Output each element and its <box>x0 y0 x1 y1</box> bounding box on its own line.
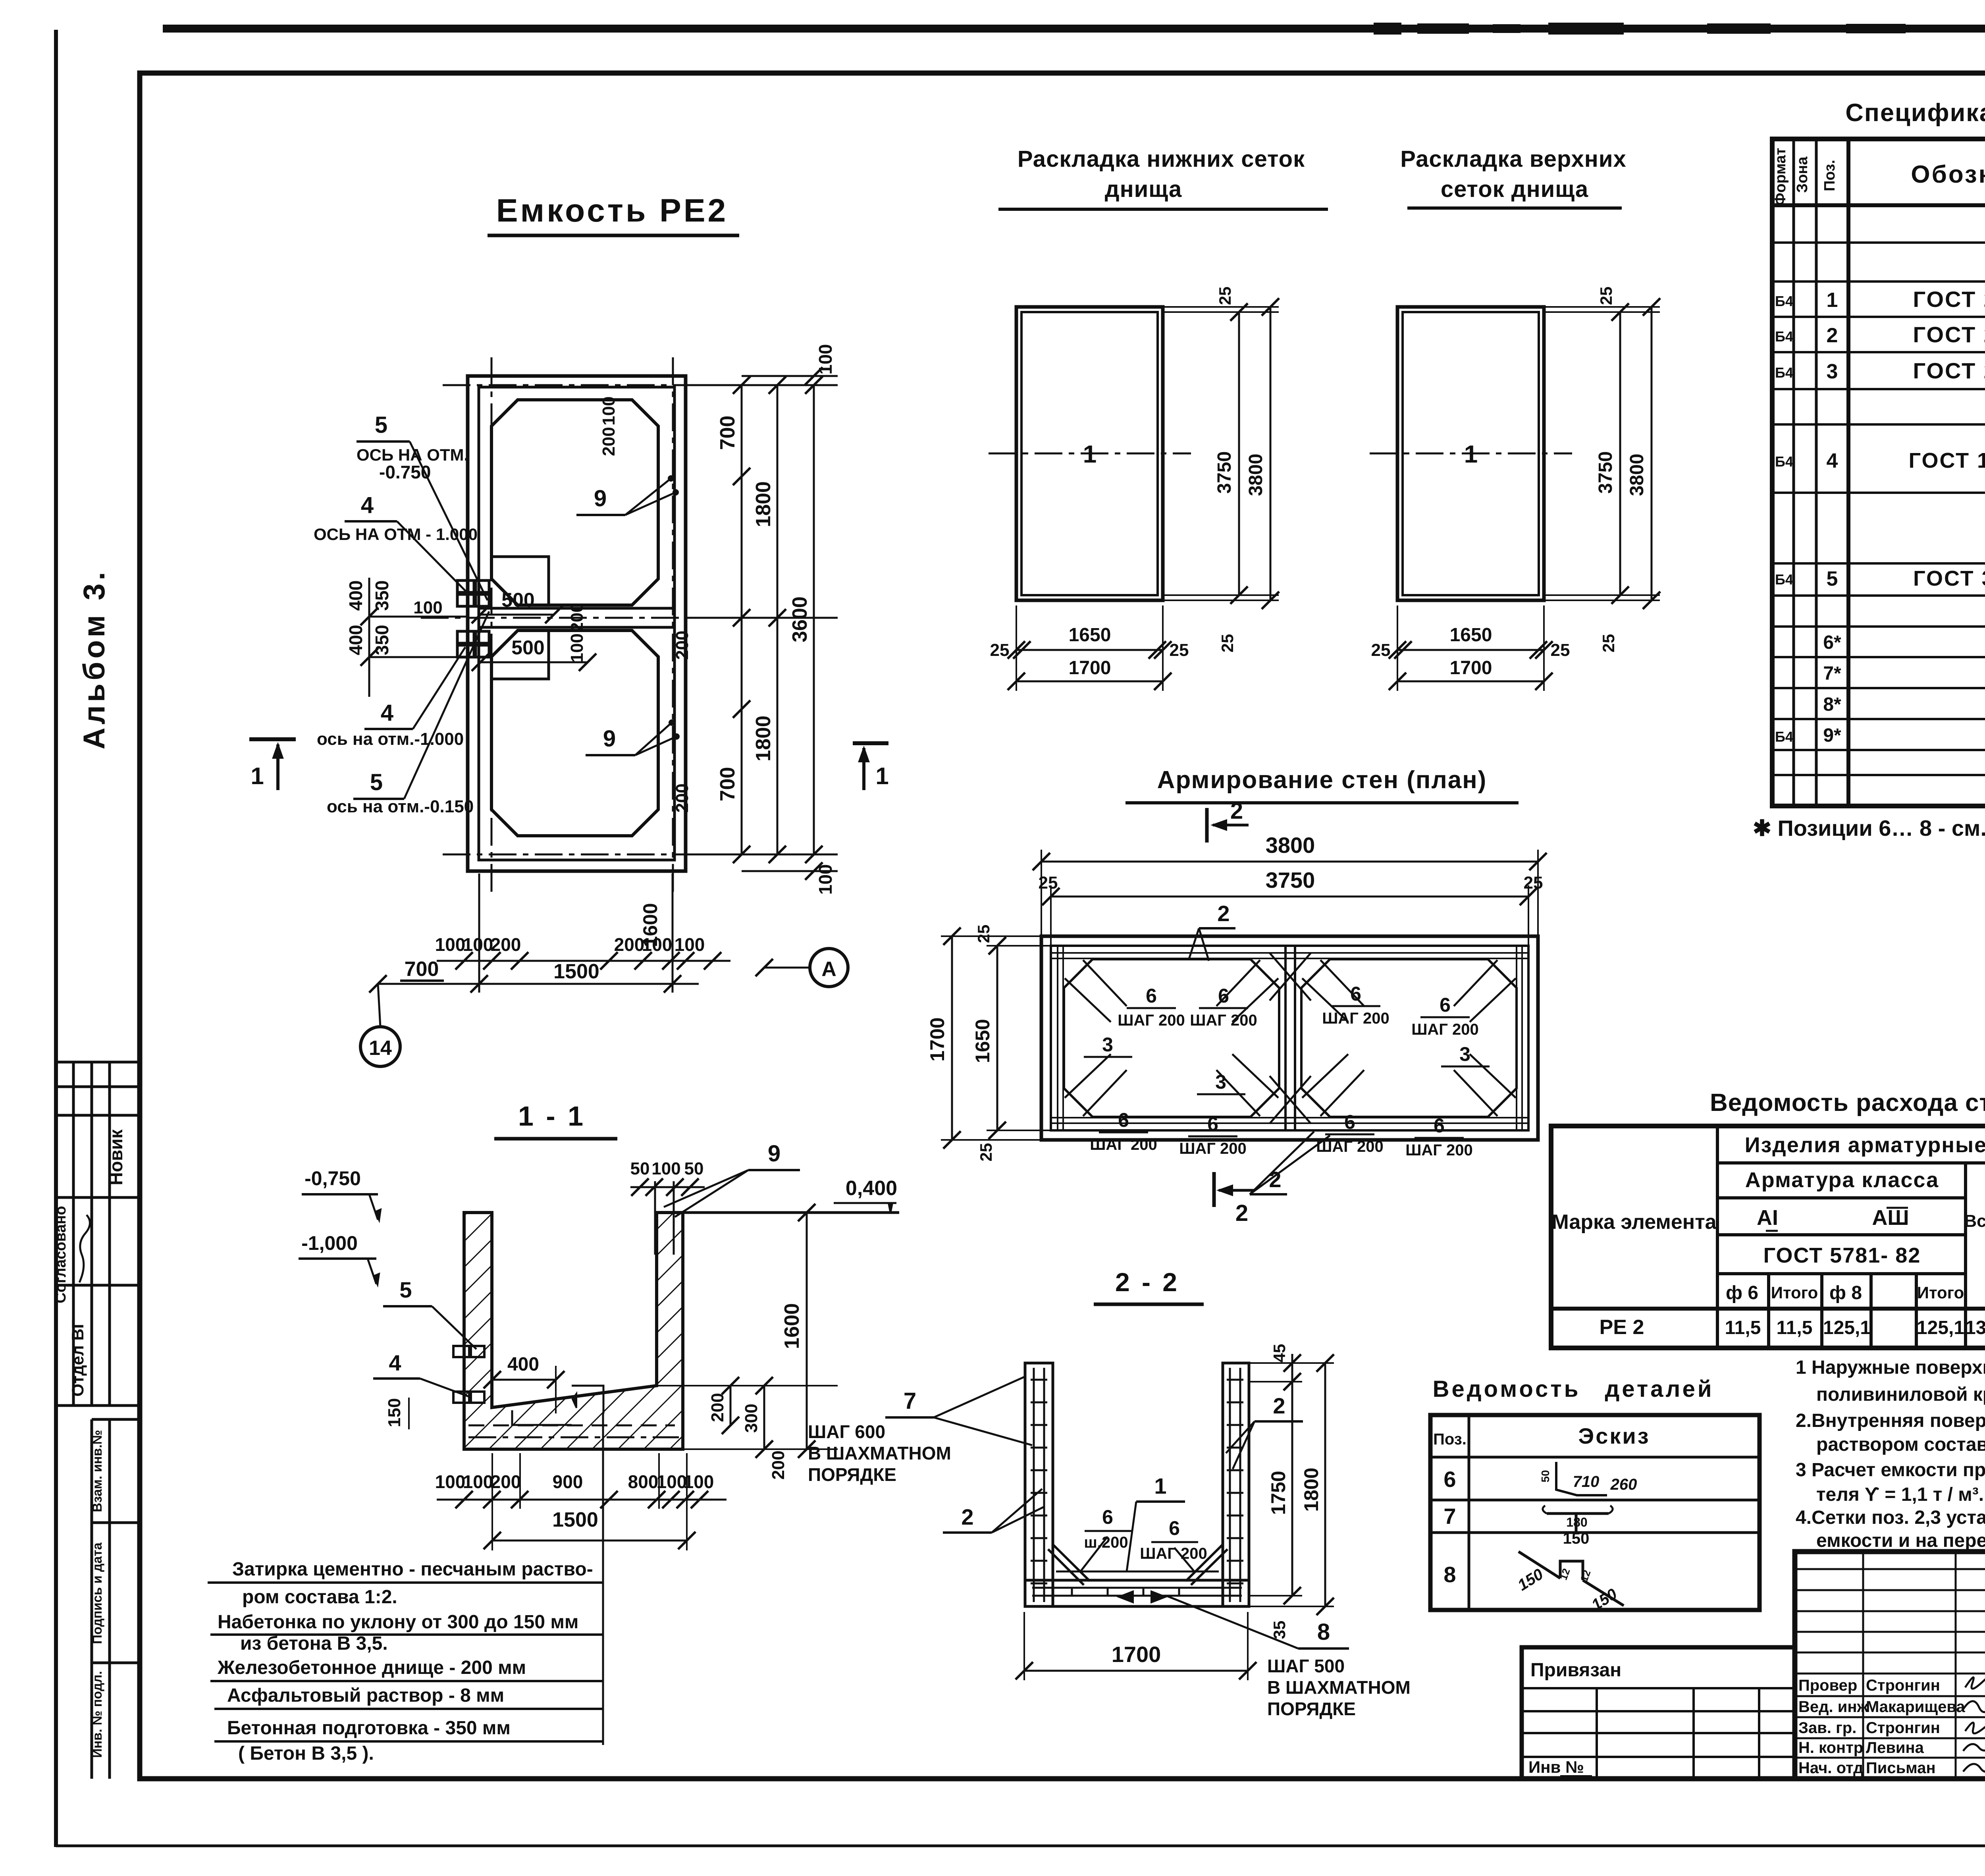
svg-text:125,1: 125,1 <box>1917 1317 1964 1338</box>
svg-text:9: 9 <box>768 1141 781 1166</box>
svg-text:Обозначение: Обозначение <box>1911 161 1985 188</box>
svg-text:1600: 1600 <box>781 1303 804 1349</box>
svg-text:1500: 1500 <box>552 1508 598 1531</box>
svg-text:Раскладка нижних сеток: Раскладка нижних сеток <box>1018 146 1305 172</box>
svg-text:ось на отм.-0.150: ось на отм.-0.150 <box>327 797 474 816</box>
svg-text:400: 400 <box>345 625 366 656</box>
svg-text:Ведомость расхода стали на: Ведомость расхода стали на элемент, кг <box>1710 1089 1985 1116</box>
svg-text:ф 6: ф 6 <box>1726 1282 1758 1303</box>
svg-text:ГОСТ 23279-85: ГОСТ 23279-85 <box>1913 287 1985 312</box>
svg-text:1 Наружные поверхности емкос: 1 Наружные поверхности емкости , выше от… <box>1796 1357 1985 1378</box>
svg-text:ШАГ 200: ШАГ 200 <box>1179 1140 1247 1157</box>
svg-text:100: 100 <box>435 934 466 955</box>
svg-text:ШАГ 200: ШАГ 200 <box>1316 1138 1384 1155</box>
svg-text:3600: 3600 <box>788 596 811 642</box>
svg-text:7: 7 <box>1443 1504 1456 1529</box>
svg-text:5: 5 <box>370 769 383 795</box>
svg-text:Всего: Всего <box>1964 1211 1985 1231</box>
svg-text:200: 200 <box>708 1393 727 1422</box>
svg-text:11,5: 11,5 <box>1777 1317 1813 1338</box>
svg-text:200: 200 <box>673 783 692 812</box>
svg-text:2: 2 <box>1217 901 1230 926</box>
svg-text:1650: 1650 <box>1450 625 1492 646</box>
svg-text:Армирование стен (план): Армирование стен (план) <box>1157 766 1487 794</box>
svg-text:6: 6 <box>1207 1113 1218 1135</box>
svg-text:25: 25 <box>1524 873 1543 893</box>
svg-text:ром состава 1:2.: ром состава 1:2. <box>242 1587 397 1608</box>
svg-text:Взам. инв.№: Взам. инв.№ <box>90 1430 104 1512</box>
svg-text:ГОСТ 23279-85: ГОСТ 23279-85 <box>1913 358 1985 383</box>
svg-text:1800: 1800 <box>752 481 775 527</box>
svg-text:Письман: Письман <box>1866 1759 1936 1777</box>
svg-text:5: 5 <box>375 412 387 438</box>
svg-text:100: 100 <box>413 598 442 617</box>
svg-text:2: 2 <box>1230 798 1243 824</box>
svg-text:300: 300 <box>742 1404 761 1433</box>
svg-text:25: 25 <box>977 1143 995 1162</box>
svg-text:3: 3 <box>1459 1043 1470 1065</box>
svg-text:45: 45 <box>1270 1344 1289 1363</box>
svg-text:Провер: Провер <box>1798 1677 1857 1694</box>
svg-text:ГОСТ 10704-76: ГОСТ 10704-76 <box>1909 449 1985 472</box>
svg-text:Н. контр: Н. контр <box>1798 1739 1863 1756</box>
svg-text:6*: 6* <box>1823 632 1841 653</box>
svg-text:Поз.: Поз. <box>1433 1431 1467 1448</box>
svg-text:1500: 1500 <box>553 960 599 983</box>
svg-text:25: 25 <box>1597 287 1615 305</box>
svg-text:6: 6 <box>1102 1506 1113 1528</box>
svg-text:8*: 8* <box>1823 694 1841 715</box>
svg-text:350: 350 <box>372 580 392 611</box>
svg-text:710: 710 <box>1573 1473 1600 1490</box>
svg-text:Бетонная подготовка - 3: Бетонная подготовка - 350 мм <box>227 1718 511 1739</box>
svg-text:50: 50 <box>684 1159 704 1178</box>
svg-text:200: 200 <box>769 1450 788 1479</box>
svg-text:2: 2 <box>1273 1393 1285 1418</box>
svg-text:РЕ 2: РЕ 2 <box>1600 1316 1644 1339</box>
svg-text:500: 500 <box>511 636 544 659</box>
svg-text:3750: 3750 <box>1595 451 1616 494</box>
svg-text:1650: 1650 <box>971 1019 994 1063</box>
svg-text:1700: 1700 <box>1112 1642 1161 1667</box>
svg-text:ШАГ 600: ШАГ 600 <box>808 1421 885 1442</box>
svg-text:Отдел ВГ: Отдел ВГ <box>68 1319 87 1396</box>
svg-text:25: 25 <box>974 925 993 943</box>
svg-text:ШАГ 200: ШАГ 200 <box>1190 1012 1257 1029</box>
svg-text:700: 700 <box>716 416 739 450</box>
svg-text:1: 1 <box>1827 289 1838 312</box>
svg-text:8: 8 <box>1443 1562 1456 1587</box>
svg-text:2 - 2: 2 - 2 <box>1115 1267 1179 1297</box>
svg-text:3: 3 <box>1215 1071 1226 1093</box>
svg-text:150: 150 <box>385 1398 404 1427</box>
svg-text:25: 25 <box>1551 640 1570 660</box>
svg-text:100: 100 <box>815 344 836 375</box>
svg-text:-0.750: -0.750 <box>379 462 431 482</box>
svg-text:100: 100 <box>684 1471 714 1492</box>
svg-text:Инв. № подл.: Инв. № подл. <box>90 1671 104 1758</box>
svg-text:Б4: Б4 <box>1775 364 1793 381</box>
svg-text:1700: 1700 <box>1069 657 1111 679</box>
svg-text:200: 200 <box>491 934 521 955</box>
svg-text:Спецификация к монолитной е: Спецификация к монолитной емкости РЕ2 <box>1845 99 1985 127</box>
svg-text:3: 3 <box>1102 1033 1113 1056</box>
svg-text:900: 900 <box>553 1471 583 1492</box>
svg-text:1750: 1750 <box>1267 1471 1289 1515</box>
svg-text:ось на отм.-1.000: ось на отм.-1.000 <box>317 729 464 749</box>
svg-text:2: 2 <box>1235 1200 1248 1226</box>
svg-text:260: 260 <box>1610 1476 1637 1493</box>
svg-text:50: 50 <box>1539 1470 1551 1482</box>
svg-text:100: 100 <box>567 633 587 662</box>
svg-text:Ведомость: Ведомость <box>1433 1376 1581 1402</box>
svg-text:ШАГ 200: ШАГ 200 <box>1140 1545 1207 1562</box>
svg-text:500: 500 <box>501 589 534 611</box>
svg-text:Стронгин: Стронгин <box>1866 1677 1940 1694</box>
svg-text:25: 25 <box>1218 634 1237 653</box>
svg-text:350: 350 <box>372 625 392 656</box>
svg-text:35: 35 <box>1270 1621 1289 1639</box>
svg-text:3750: 3750 <box>1266 868 1315 893</box>
svg-text:ШАГ 200: ШАГ 200 <box>1405 1141 1473 1159</box>
svg-text:200: 200 <box>599 427 619 456</box>
svg-text:700: 700 <box>405 958 439 981</box>
svg-text:ф 8: ф 8 <box>1829 1282 1862 1303</box>
svg-text:( Бетон В 3,5 ).: ( Бетон В 3,5 ). <box>238 1743 374 1764</box>
svg-text:Итого: Итого <box>1771 1283 1818 1302</box>
svg-text:Эскиз: Эскиз <box>1578 1423 1650 1448</box>
svg-text:ш.200: ш.200 <box>1084 1534 1128 1551</box>
svg-text:А: А <box>821 958 836 981</box>
svg-text:1: 1 <box>875 763 888 789</box>
svg-text:1650: 1650 <box>1069 625 1111 646</box>
svg-text:25: 25 <box>1371 640 1391 660</box>
svg-text:Согласовано: Согласовано <box>52 1206 69 1303</box>
svg-text:1600: 1600 <box>639 903 661 947</box>
svg-text:6: 6 <box>1344 1111 1355 1133</box>
svg-text:100: 100 <box>657 1471 687 1492</box>
svg-text:Затирка цементно - песчаным: Затирка цементно - песчаным раство- <box>232 1559 593 1580</box>
svg-text:-0,750: -0,750 <box>304 1167 361 1190</box>
svg-text:25: 25 <box>1216 287 1234 305</box>
svg-text:100: 100 <box>463 1471 493 1492</box>
svg-text:150: 150 <box>1563 1530 1590 1547</box>
svg-text:5: 5 <box>399 1277 412 1302</box>
svg-text:ГОСТ 5781- 82: ГОСТ 5781- 82 <box>1763 1244 1921 1267</box>
svg-text:Макарищева: Макарищева <box>1866 1698 1965 1716</box>
svg-text:раствором состава 1:2 за: раствором состава 1:2 за 2 раза на толщи… <box>1816 1434 1985 1455</box>
svg-text:100: 100 <box>815 864 836 895</box>
svg-text:АІ: АІ <box>1757 1206 1778 1230</box>
svg-text:6: 6 <box>1440 994 1451 1016</box>
svg-text:ШАГ 200: ШАГ 200 <box>1411 1021 1479 1038</box>
svg-text:АШ: АШ <box>1872 1206 1909 1230</box>
svg-text:2.Внутренняя поверхность сте: 2.Внутренняя поверхность стен торкретиру… <box>1796 1410 1985 1431</box>
svg-text:25: 25 <box>990 640 1010 660</box>
svg-text:Б4: Б4 <box>1775 729 1793 745</box>
svg-text:1700: 1700 <box>1450 657 1492 679</box>
svg-text:1700: 1700 <box>926 1017 948 1061</box>
svg-text:11,5: 11,5 <box>1725 1317 1761 1338</box>
svg-text:Инв №: Инв № <box>1528 1758 1584 1776</box>
svg-text:25: 25 <box>1170 640 1189 660</box>
svg-text:8: 8 <box>1317 1619 1330 1645</box>
svg-text:100: 100 <box>435 1471 466 1492</box>
svg-text:4.Сетки поз. 2,3 устанавлива: 4.Сетки поз. 2,3 устанавливать свободным… <box>1796 1507 1985 1528</box>
svg-text:Альбом 3.: Альбом 3. <box>77 569 111 750</box>
svg-text:Привязан: Привязан <box>1530 1660 1621 1681</box>
svg-text:1800: 1800 <box>752 715 775 762</box>
svg-text:Формат: Формат <box>1772 148 1789 206</box>
svg-text:Левина: Левина <box>1866 1739 1924 1756</box>
svg-text:200: 200 <box>567 603 587 632</box>
svg-text:4: 4 <box>361 492 374 518</box>
svg-text:3800: 3800 <box>1266 833 1315 858</box>
svg-text:Зона: Зона <box>1794 156 1811 193</box>
svg-text:Изделия арматурные: Изделия арматурные <box>1745 1133 1985 1157</box>
svg-text:Вед. инж: Вед. инж <box>1798 1698 1869 1716</box>
svg-text:3800: 3800 <box>1245 454 1266 496</box>
svg-text:ГОСТ 3262-75: ГОСТ 3262-75 <box>1913 567 1985 590</box>
svg-text:100: 100 <box>599 396 619 425</box>
svg-text:6: 6 <box>1434 1114 1445 1137</box>
svg-text:1: 1 <box>251 763 264 789</box>
svg-text:Железобетонное днище - 200: Железобетонное днище - 200 мм <box>217 1657 526 1678</box>
svg-text:125,1: 125,1 <box>1823 1317 1871 1338</box>
svg-text:14: 14 <box>369 1037 392 1060</box>
svg-text:1 - 1: 1 - 1 <box>518 1101 586 1132</box>
svg-text:3 Расчет емкости произведе: 3 Расчет емкости произведен при объемном… <box>1796 1460 1985 1481</box>
svg-text:25: 25 <box>1599 634 1618 653</box>
svg-text:1: 1 <box>1154 1473 1166 1498</box>
svg-text:теля ϒ = 1,1 т / м³.: теля ϒ = 1,1 т / м³. <box>1816 1484 1984 1505</box>
svg-text:200: 200 <box>491 1471 521 1492</box>
svg-text:7*: 7* <box>1823 663 1841 684</box>
svg-text:Подпись и дата: Подпись и дата <box>90 1542 104 1644</box>
svg-text:9: 9 <box>594 486 607 511</box>
svg-text:В ШАХМАТНОМ: В ШАХМАТНОМ <box>1267 1677 1411 1698</box>
svg-text:Асфальтовый раствор - 8 м: Асфальтовый раствор - 8 мм <box>227 1685 504 1706</box>
svg-text:3: 3 <box>1827 360 1838 383</box>
svg-text:1800: 1800 <box>1300 1467 1322 1512</box>
svg-text:800: 800 <box>628 1471 659 1492</box>
svg-text:сеток днища: сеток днища <box>1441 176 1588 202</box>
svg-text:4: 4 <box>1827 449 1838 472</box>
svg-text:6: 6 <box>1146 985 1157 1007</box>
svg-text:Арматура класса: Арматура класса <box>1745 1168 1939 1192</box>
svg-text:6: 6 <box>1443 1467 1456 1492</box>
svg-text:3800: 3800 <box>1627 454 1648 496</box>
svg-text:ПОРЯДКЕ: ПОРЯДКЕ <box>808 1464 896 1485</box>
svg-text:100: 100 <box>463 934 493 955</box>
svg-text:3750: 3750 <box>1214 451 1235 494</box>
svg-text:180: 180 <box>1566 1515 1587 1529</box>
svg-text:Зав. гр.: Зав. гр. <box>1798 1719 1856 1737</box>
svg-text:Раскладка верхних: Раскладка верхних <box>1400 146 1627 172</box>
svg-text:2: 2 <box>961 1504 973 1529</box>
svg-text:400: 400 <box>507 1354 539 1375</box>
svg-text:6: 6 <box>1350 983 1361 1005</box>
svg-text:0,400: 0,400 <box>846 1177 897 1200</box>
svg-text:9: 9 <box>603 726 616 752</box>
svg-text:6: 6 <box>1218 985 1229 1007</box>
svg-text:-1,000: -1,000 <box>301 1232 358 1254</box>
svg-text:емкости и на пересечении: емкости и на пересечении стен ( поз. 3). <box>1816 1530 1985 1551</box>
svg-text:✱ Позиции 6… 8 - см. ведом: ✱ Позиции 6… 8 - см. ведомость деталей н… <box>1753 816 1985 841</box>
svg-text:7: 7 <box>904 1388 916 1414</box>
svg-text:100: 100 <box>675 934 705 955</box>
svg-text:Б4: Б4 <box>1775 453 1793 470</box>
svg-text:4: 4 <box>389 1350 401 1375</box>
svg-text:6: 6 <box>1118 1109 1129 1131</box>
svg-text:ШАГ 200: ШАГ 200 <box>1322 1010 1389 1027</box>
svg-text:Емкость РЕ2: Емкость РЕ2 <box>496 193 728 229</box>
svg-text:Новик: Новик <box>106 1129 126 1186</box>
svg-text:9*: 9* <box>1823 725 1841 746</box>
svg-text:4: 4 <box>381 700 393 726</box>
svg-text:700: 700 <box>716 767 739 802</box>
svg-text:ОСЬ НА ОТМ - 1.000: ОСЬ НА ОТМ - 1.000 <box>314 525 478 544</box>
svg-text:днища: днища <box>1105 176 1182 202</box>
svg-text:В ШАХМАТНОМ: В ШАХМАТНОМ <box>808 1443 951 1463</box>
svg-text:ПОРЯДКЕ: ПОРЯДКЕ <box>1267 1699 1356 1719</box>
svg-text:Б4: Б4 <box>1775 571 1793 588</box>
svg-text:100: 100 <box>651 1159 680 1178</box>
svg-text:Б4: Б4 <box>1775 328 1793 345</box>
svg-text:ШАГ 500: ШАГ 500 <box>1267 1656 1345 1676</box>
svg-text:ОСЬ НА ОТМ.: ОСЬ НА ОТМ. <box>357 445 468 464</box>
svg-text:400: 400 <box>345 580 366 611</box>
svg-text:Стронгин: Стронгин <box>1866 1719 1940 1737</box>
svg-text:5: 5 <box>1827 567 1838 590</box>
svg-text:Нач. отд: Нач. отд <box>1798 1759 1863 1777</box>
svg-text:ШАГ 200: ШАГ 200 <box>1090 1136 1157 1153</box>
svg-text:6: 6 <box>1169 1517 1180 1539</box>
svg-text:Поз.: Поз. <box>1821 160 1838 191</box>
svg-text:50: 50 <box>630 1159 650 1178</box>
svg-text:Марка элемента: Марка элемента <box>1551 1211 1717 1234</box>
svg-text:Итого: Итого <box>1917 1283 1964 1302</box>
svg-text:2: 2 <box>1827 324 1838 347</box>
svg-text:деталей: деталей <box>1605 1376 1714 1402</box>
svg-text:Набетонка по уклону от 300: Набетонка по уклону от 300 до 150 мм <box>218 1612 578 1633</box>
svg-text:136,6: 136,6 <box>1965 1317 1985 1338</box>
svg-text:из бетона В 3,5.: из бетона В 3,5. <box>240 1633 388 1654</box>
svg-text:Б4: Б4 <box>1775 293 1793 309</box>
svg-text:ШАГ 200: ШАГ 200 <box>1118 1012 1185 1029</box>
svg-text:поливиниловой краской светл: поливиниловой краской светлых тонов. <box>1816 1384 1985 1405</box>
svg-text:ГОСТ 23279-85: ГОСТ 23279-85 <box>1913 322 1985 347</box>
svg-text:200: 200 <box>673 630 692 659</box>
